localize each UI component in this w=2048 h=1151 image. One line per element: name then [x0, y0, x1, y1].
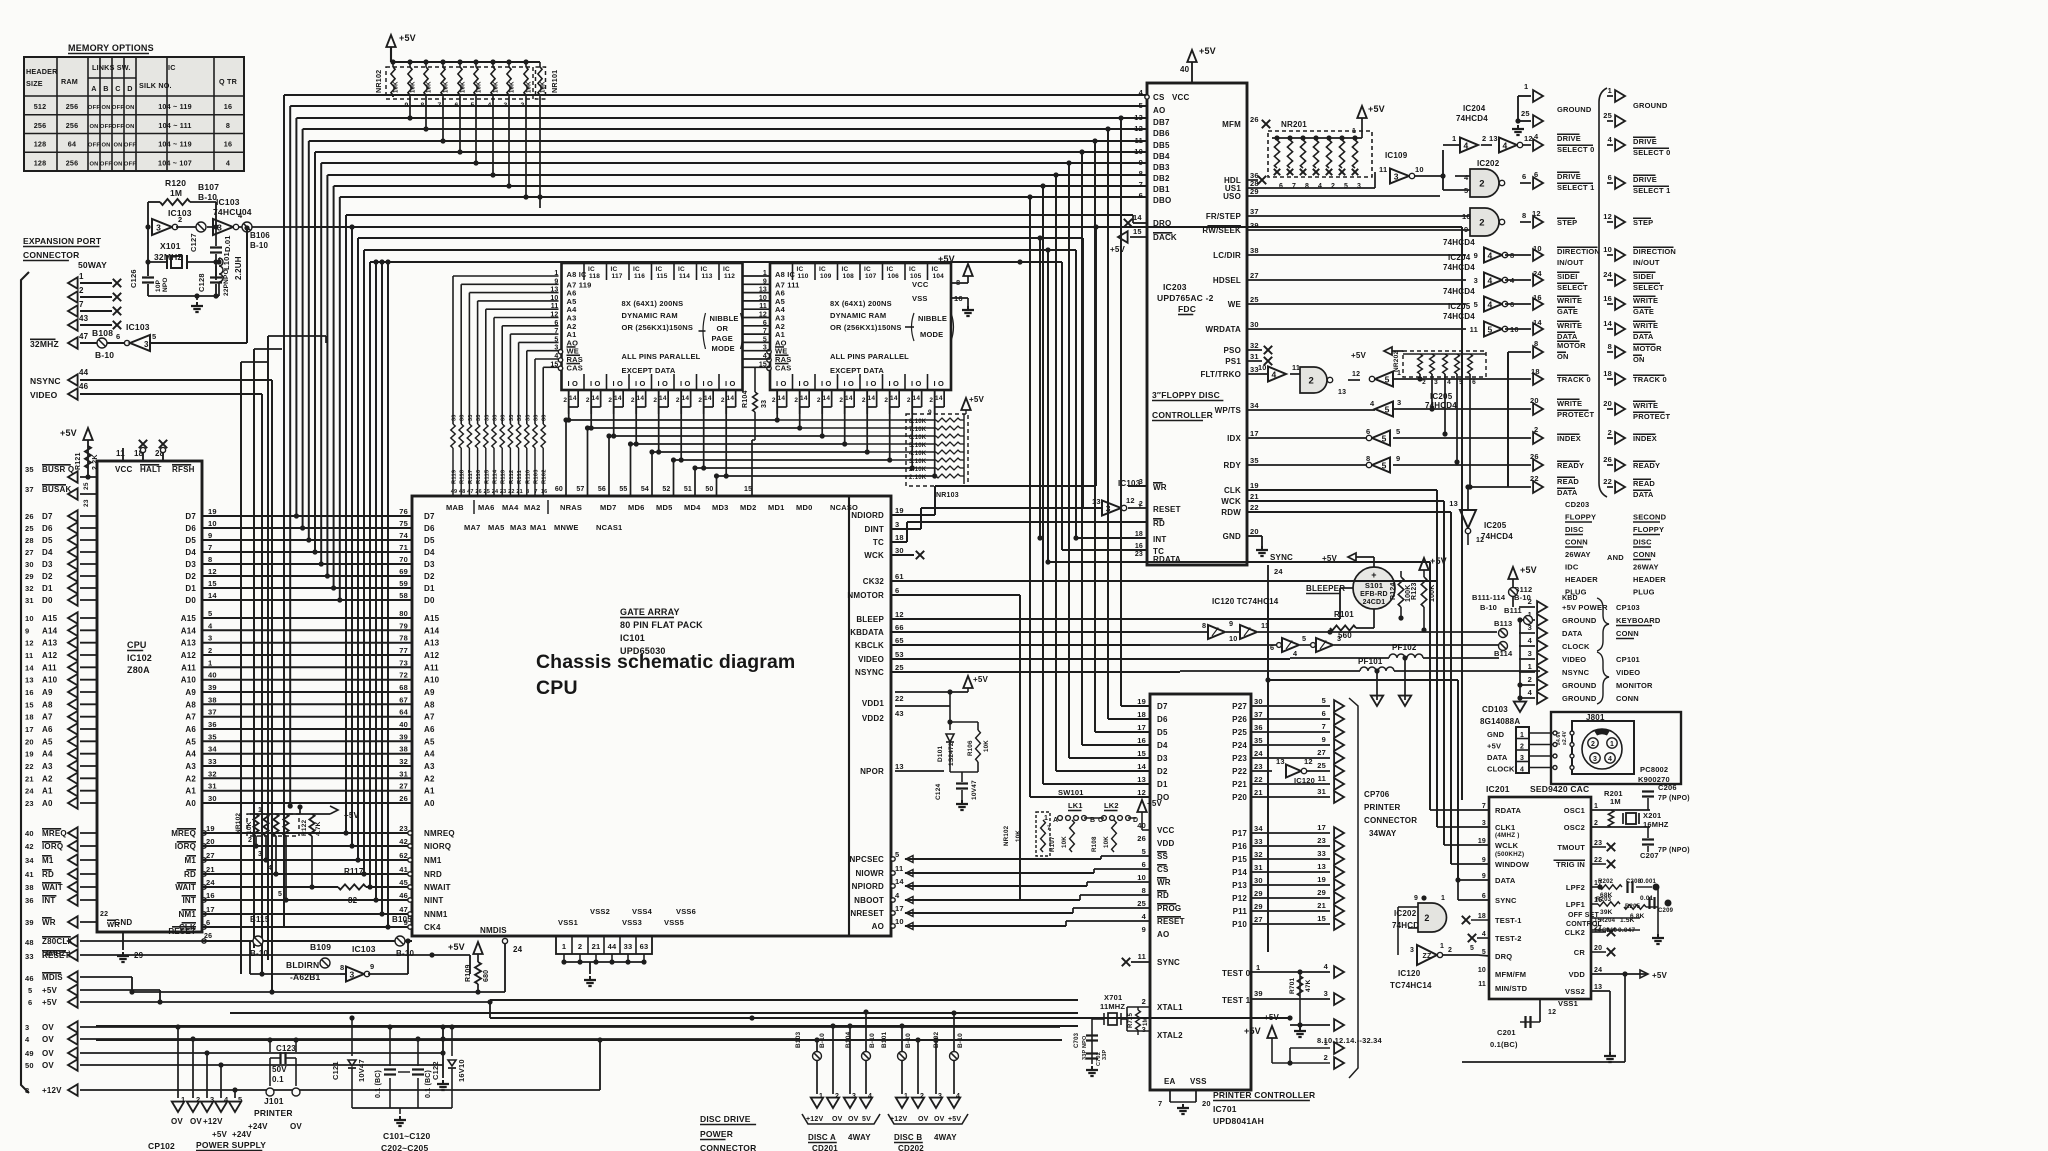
svg-text:+5V: +5V	[448, 942, 465, 952]
svg-text:IC204: IC204	[1448, 253, 1471, 262]
svg-text:D4: D4	[424, 548, 435, 557]
svg-text:WCLK: WCLK	[1495, 841, 1519, 850]
svg-text:PF101: PF101	[1358, 657, 1383, 666]
CPU right-side D pin labels	[185, 507, 412, 605]
svg-text:A4: A4	[424, 750, 435, 759]
svg-text:I O: I O	[776, 379, 787, 388]
svg-text:B113: B113	[1494, 619, 1512, 628]
svg-text:A8: A8	[42, 700, 53, 709]
svg-text:26: 26	[1250, 115, 1259, 124]
svg-text:42: 42	[399, 837, 408, 846]
svg-text:SELECT 0: SELECT 0	[1557, 145, 1594, 154]
svg-text:IC102: IC102	[127, 653, 152, 663]
svg-text:10K: 10K	[427, 81, 433, 93]
svg-text:A13: A13	[181, 639, 197, 648]
IC201 SED9420CAC block	[1478, 784, 1603, 1016]
svg-text:27: 27	[25, 548, 34, 557]
svg-text:MD0: MD0	[796, 503, 812, 512]
svg-text:38: 38	[399, 745, 408, 754]
svg-text:CD103: CD103	[1482, 705, 1508, 714]
svg-text:10K: 10K	[983, 740, 990, 752]
wire GA NPCSEC..A0 to right	[891, 856, 1150, 930]
svg-text:49: 49	[451, 489, 458, 495]
svg-text:NR202: NR202	[1393, 351, 1400, 372]
CP706 printer connector label	[1364, 790, 1417, 838]
svg-text:A2: A2	[424, 774, 435, 783]
svg-text:GROUND: GROUND	[1557, 105, 1592, 114]
svg-text:IC: IC	[701, 266, 708, 273]
svg-text:74HCD4: 74HCD4	[1443, 287, 1475, 296]
svg-text:3: 3	[1410, 947, 1414, 954]
svg-text:16: 16	[206, 891, 215, 900]
svg-text:22: 22	[1603, 477, 1612, 486]
svg-text:VSS3: VSS3	[622, 918, 642, 927]
svg-text:24: 24	[206, 878, 215, 887]
svg-text:OFF: OFF	[100, 124, 112, 130]
resistor R104 33	[742, 367, 768, 440]
svg-text:12: 12	[895, 610, 904, 619]
svg-text:4: 4	[1520, 767, 1524, 774]
svg-text:1M: 1M	[1143, 1017, 1149, 1026]
svg-text:B-10: B-10	[95, 350, 114, 360]
svg-text:+5V: +5V	[969, 395, 985, 404]
svg-text:DACK: DACK	[1153, 233, 1177, 242]
svg-text:2: 2	[1534, 425, 1538, 434]
svg-text:CONN: CONN	[1616, 629, 1639, 638]
svg-text:36: 36	[208, 720, 217, 729]
expansion pin 46 MDIS	[25, 971, 135, 994]
svg-text:IC101: IC101	[620, 633, 645, 643]
inverter IC103 BLDIRN	[250, 941, 412, 982]
NAND IC202 (step)	[1247, 208, 1577, 236]
svg-text:29: 29	[1254, 889, 1263, 898]
svg-text:14: 14	[592, 395, 600, 402]
svg-text:9: 9	[928, 409, 932, 416]
svg-text:112: 112	[724, 273, 735, 280]
svg-text:7: 7	[1158, 1099, 1162, 1108]
svg-text:SED9420 CAC: SED9420 CAC	[1530, 784, 1589, 794]
svg-text:16: 16	[1603, 294, 1612, 303]
svg-text:IDX: IDX	[1227, 434, 1241, 443]
svg-text:XTAL2: XTAL2	[1157, 1031, 1183, 1040]
svg-text:NPIORD: NPIORD	[852, 882, 884, 891]
svg-text:NR102: NR102	[1003, 825, 1010, 846]
svg-text:CONNECTOR: CONNECTOR	[1364, 816, 1417, 825]
svg-text:INDEX: INDEX	[1557, 434, 1581, 443]
svg-text:110: 110	[798, 273, 809, 280]
svg-text:Chassis schematic diagram: Chassis schematic diagram	[536, 651, 795, 673]
svg-text:SYNC: SYNC	[1495, 896, 1517, 905]
svg-text:OV: OV	[171, 1117, 183, 1126]
svg-text:OFF: OFF	[88, 105, 100, 111]
resistor network NR102 pullups (10K) dashed	[235, 804, 310, 902]
svg-text:12: 12	[1126, 496, 1135, 505]
svg-text:9: 9	[1396, 454, 1400, 463]
svg-text:+: +	[1371, 570, 1376, 580]
svg-text:+5V: +5V	[399, 33, 416, 43]
svg-text:DISC A: DISC A	[808, 1133, 836, 1142]
svg-text:1: 1	[904, 1093, 908, 1100]
filter PF101 on nsync	[1180, 657, 1540, 706]
svg-text:SIDEI: SIDEI	[1557, 272, 1578, 281]
svg-text:KBCLK: KBCLK	[855, 641, 884, 650]
svg-text:6: 6	[116, 332, 120, 341]
svg-text:D2: D2	[1157, 767, 1168, 776]
resistor network NR101 (10K)	[536, 62, 560, 99]
svg-text:A14: A14	[424, 626, 440, 635]
svg-text:21: 21	[516, 489, 523, 495]
svg-text:33P NPO: 33P NPO	[1082, 1035, 1088, 1060]
svg-text:IC: IC	[611, 266, 618, 273]
svg-text:READ: READ	[1557, 477, 1579, 486]
svg-text:37: 37	[1254, 710, 1263, 719]
svg-text:41: 41	[25, 870, 34, 879]
svg-text:13: 13	[1594, 984, 1602, 991]
svg-text:14: 14	[935, 395, 943, 402]
svg-text:D2: D2	[424, 572, 435, 581]
svg-text:+5V: +5V	[42, 986, 58, 995]
svg-text:J101: J101	[264, 1096, 284, 1106]
svg-text:512: 512	[34, 102, 47, 111]
svg-text:IC: IC	[723, 266, 730, 273]
svg-text:11: 11	[1478, 981, 1486, 988]
svg-text:C209: C209	[1658, 908, 1674, 914]
crystal X101 32MHZ	[145, 227, 219, 280]
svg-text:IC205: IC205	[1448, 302, 1471, 311]
svg-text:A11: A11	[424, 663, 439, 672]
svg-text:D4: D4	[42, 548, 53, 557]
svg-text:A: A	[91, 84, 96, 93]
svg-text:+5V: +5V	[1520, 565, 1537, 575]
svg-text:GATE: GATE	[1557, 307, 1578, 316]
svg-text:19: 19	[895, 506, 904, 515]
svg-text:SYNC: SYNC	[1157, 958, 1180, 967]
svg-text:SELECT 1: SELECT 1	[1557, 183, 1594, 192]
svg-text:9: 9	[1139, 158, 1143, 167]
svg-text:1: 1	[1324, 1038, 1328, 1047]
svg-text:CPU: CPU	[536, 677, 578, 699]
svg-text:DATA: DATA	[1495, 876, 1516, 885]
svg-text:A6: A6	[42, 725, 53, 734]
svg-text:ON: ON	[1633, 355, 1645, 364]
svg-text:1: 1	[181, 1095, 185, 1104]
svg-text:VDD: VDD	[1157, 839, 1175, 848]
wire RAM data IO bus rows	[563, 390, 937, 479]
svg-text:7: 7	[79, 300, 84, 309]
svg-text:MD5: MD5	[656, 503, 672, 512]
svg-text:+5V: +5V	[1199, 46, 1216, 56]
svg-text:EXCEPT DATA: EXCEPT DATA	[830, 366, 884, 375]
svg-text:DRIVE: DRIVE	[1633, 137, 1657, 146]
svg-text:77: 77	[399, 646, 408, 655]
printer controller bottom pins	[1158, 1090, 1315, 1126]
printer spare connector pins	[1244, 1013, 1383, 1069]
svg-text:29: 29	[134, 951, 144, 960]
svg-text:VDD2: VDD2	[862, 714, 884, 723]
svg-text:SILK NO.: SILK NO.	[139, 81, 172, 90]
svg-text:NPO: NPO	[162, 277, 169, 292]
svg-text:A6: A6	[424, 725, 435, 734]
svg-text:4: 4	[1534, 132, 1539, 141]
svg-text:2: 2	[835, 1093, 839, 1100]
svg-text:6: 6	[1142, 860, 1146, 869]
svg-text:R106: R106	[967, 740, 974, 756]
svg-text:7:10K: 7:10K	[909, 427, 927, 433]
svg-text:IC205: IC205	[1484, 521, 1507, 530]
wire RDATA to IC201	[1048, 562, 1489, 810]
svg-text:RDW: RDW	[1221, 508, 1241, 517]
svg-text:3: 3	[1593, 756, 1597, 763]
svg-text:48: 48	[459, 489, 466, 495]
svg-text:A11: A11	[42, 663, 57, 672]
svg-text:60: 60	[555, 486, 563, 493]
svg-text:A11: A11	[181, 663, 196, 672]
svg-text:23: 23	[399, 824, 408, 833]
svg-text:NR201: NR201	[1281, 120, 1307, 129]
svg-text:MONITOR: MONITOR	[1616, 681, 1653, 690]
svg-text:CAS: CAS	[775, 363, 791, 372]
svg-text:+5V: +5V	[1351, 351, 1367, 360]
svg-text:A8 IC: A8 IC	[567, 270, 588, 279]
svg-text:+12V: +12V	[890, 1116, 907, 1123]
svg-text:6: 6	[1322, 709, 1326, 718]
inverter row KBCLK	[1150, 634, 1499, 658]
svg-text:TEST-1: TEST-1	[1495, 916, 1522, 925]
svg-text:4: 4	[1487, 250, 1492, 260]
svg-text:5:10K: 5:10K	[909, 443, 927, 449]
svg-text:5: 5	[1396, 427, 1400, 436]
svg-text:13: 13	[1317, 862, 1326, 871]
svg-text:3: 3	[208, 634, 212, 643]
svg-text:21: 21	[1254, 788, 1263, 797]
svg-text:DATA: DATA	[1557, 488, 1578, 497]
svg-text:OV: OV	[918, 1116, 929, 1123]
wire 4MHz clock down to IC201	[1461, 227, 1463, 800]
svg-text:32: 32	[208, 769, 217, 778]
svg-text:2.2UH: 2.2UH	[234, 256, 243, 280]
svg-text:I O: I O	[612, 379, 623, 388]
svg-text:1: 1	[1528, 662, 1532, 671]
resistor bundle R119-R105 (33 ohm) and RAM1 address staircase	[451, 276, 559, 496]
svg-text:33: 33	[624, 942, 633, 951]
svg-text:AO: AO	[872, 922, 884, 931]
svg-text:GND: GND	[114, 918, 132, 927]
svg-text:36: 36	[25, 896, 34, 905]
inverter IC103 32MHZ	[124, 225, 249, 351]
svg-text:52: 52	[662, 486, 670, 493]
svg-text:14: 14	[868, 395, 876, 402]
svg-text:B109: B109	[310, 942, 331, 952]
svg-text:16V10: 16V10	[457, 1059, 466, 1082]
svg-text:74HCD4: 74HCD4	[1443, 238, 1475, 247]
svg-text:16: 16	[224, 102, 232, 111]
svg-text:1: 1	[208, 658, 212, 667]
svg-text:11: 11	[25, 651, 33, 660]
svg-text:CLK: CLK	[1224, 486, 1241, 495]
svg-text:R104: R104	[742, 390, 749, 408]
svg-text:IC202: IC202	[1477, 159, 1500, 168]
svg-text:104 ~ 119: 104 ~ 119	[158, 140, 192, 149]
wire GA NDIORD/DINT/TC/WCK to FDC	[891, 486, 1147, 559]
svg-text:10: 10	[1137, 873, 1146, 882]
svg-text:WR: WR	[1153, 483, 1167, 492]
svg-text:1: 1	[1520, 732, 1524, 739]
inverter IC103 osc 1	[145, 208, 199, 235]
svg-text:STEP: STEP	[1633, 218, 1653, 227]
crystal X201 16MHZ + R201	[1591, 783, 1690, 860]
svg-text:A9: A9	[424, 688, 435, 697]
svg-text:2: 2	[79, 286, 84, 295]
svg-text:10: 10	[25, 614, 34, 623]
svg-text:EFB-RD: EFB-RD	[1360, 591, 1388, 598]
svg-text:X201: X201	[1643, 811, 1661, 820]
expansion pins 1 2 7 43	[68, 272, 121, 331]
svg-text:6: 6	[1472, 379, 1476, 386]
svg-text:2: 2	[1142, 997, 1146, 1006]
resistor R122 4.7K	[301, 806, 360, 890]
svg-text:24: 24	[1594, 967, 1602, 974]
svg-text:40: 40	[1180, 65, 1190, 74]
svg-text:UPD65030: UPD65030	[620, 646, 666, 656]
svg-text:WINDOW: WINDOW	[1495, 860, 1530, 869]
svg-text:NCAS1: NCAS1	[596, 523, 622, 532]
svg-text:4: 4	[208, 621, 213, 630]
svg-text:MODE: MODE	[920, 330, 943, 339]
svg-text:40: 40	[208, 671, 217, 680]
svg-text:B108: B108	[92, 328, 113, 338]
svg-text:NSYNC: NSYNC	[855, 668, 884, 677]
svg-text:21: 21	[25, 774, 34, 783]
beads B111-B114	[1472, 565, 1537, 712]
svg-text:ON: ON	[101, 105, 110, 111]
svg-text:A8 IC: A8 IC	[775, 270, 796, 279]
svg-text:4: 4	[1324, 962, 1329, 971]
svg-text:22: 22	[1594, 857, 1602, 864]
svg-text:14: 14	[659, 395, 667, 402]
svg-text:A1: A1	[185, 787, 196, 796]
bead B115 B-10	[250, 915, 270, 958]
svg-text:NIBBLE: NIBBLE	[918, 314, 947, 323]
svg-text:28: 28	[25, 536, 34, 545]
svg-text:2: 2	[1324, 1053, 1328, 1062]
svg-text:15: 15	[1137, 749, 1146, 758]
write protect row	[1247, 392, 1594, 419]
svg-text:3: 3	[25, 1023, 29, 1032]
svg-text:MD4: MD4	[684, 503, 701, 512]
svg-text:49: 49	[25, 1049, 34, 1058]
svg-text:12: 12	[1304, 757, 1313, 766]
svg-text:INDEX: INDEX	[1633, 434, 1657, 443]
svg-text:14: 14	[637, 395, 645, 402]
svg-text:B-10: B-10	[1480, 603, 1497, 612]
svg-text:1: 1	[1452, 134, 1456, 143]
svg-text:R120: R120	[165, 178, 186, 188]
svg-text:MA3: MA3	[510, 523, 526, 532]
svg-text:25: 25	[1521, 109, 1530, 118]
svg-text:3: 3	[1528, 649, 1532, 658]
svg-text:21: 21	[592, 942, 601, 951]
svg-text:DATA: DATA	[1633, 490, 1654, 499]
svg-text:WP/TS: WP/TS	[1215, 406, 1242, 415]
svg-text:B-10: B-10	[396, 949, 414, 958]
svg-text:35: 35	[1254, 736, 1263, 745]
gate array IC101 block	[412, 496, 891, 936]
svg-text:PROTECT: PROTECT	[1557, 410, 1594, 419]
svg-text:AO: AO	[1157, 930, 1169, 939]
svg-text:DB2: DB2	[1153, 174, 1170, 183]
svg-text:115: 115	[657, 273, 668, 280]
svg-text:4: 4	[1487, 299, 1492, 309]
svg-text:3: 3	[895, 520, 899, 529]
connector J801 DIN	[1551, 712, 1681, 784]
svg-text:32MHZ: 32MHZ	[154, 252, 183, 262]
svg-text:A9: A9	[42, 688, 53, 697]
svg-text:4WAY: 4WAY	[848, 1133, 871, 1142]
svg-text:3: 3	[1520, 755, 1524, 762]
LPF RC network R202 R203 R204 R205	[1591, 879, 1674, 944]
svg-text:117: 117	[612, 273, 623, 280]
svg-text:ON: ON	[113, 143, 122, 149]
svg-text:TRACK 0: TRACK 0	[1633, 375, 1667, 384]
svg-text:R112: R112	[509, 470, 515, 484]
svg-text:8X (64X1) 200NS: 8X (64X1) 200NS	[622, 299, 684, 308]
svg-text:19: 19	[208, 507, 217, 516]
svg-text:12: 12	[208, 567, 217, 576]
svg-text:+5V: +5V	[212, 1130, 228, 1139]
svg-text:3: 3	[349, 969, 354, 979]
svg-text:9: 9	[1322, 735, 1326, 744]
svg-text:A15: A15	[424, 614, 440, 623]
svg-text:37: 37	[208, 708, 217, 717]
svg-text:Q TR: Q TR	[219, 77, 238, 86]
svg-text:1: 1	[258, 807, 262, 814]
svg-text:10: 10	[1533, 244, 1542, 253]
svg-text:PC8002: PC8002	[1640, 765, 1668, 774]
svg-text:R111: R111	[517, 469, 523, 484]
svg-text:2:10K: 2:10K	[909, 467, 927, 473]
svg-text:25: 25	[1603, 111, 1612, 120]
svg-text:8: 8	[25, 1086, 29, 1095]
svg-text:5: 5	[1470, 945, 1474, 952]
svg-text:10K: 10K	[411, 81, 417, 93]
bead B107 B-10	[196, 182, 219, 232]
svg-text:38: 38	[25, 883, 34, 892]
svg-text:VIDEO: VIDEO	[858, 655, 884, 664]
svg-text:3: 3	[1106, 503, 1111, 513]
svg-text:S101: S101	[1365, 581, 1383, 590]
svg-text:18: 18	[1478, 913, 1486, 920]
svg-text:22: 22	[25, 762, 34, 771]
wire NAND printer inputs	[1398, 907, 1408, 955]
svg-text:NMOTOR: NMOTOR	[847, 591, 884, 600]
svg-text:17: 17	[895, 904, 904, 913]
svg-text:10: 10	[1603, 245, 1612, 254]
svg-text:OV: OV	[832, 1116, 843, 1123]
svg-text:2: 2	[1520, 744, 1524, 751]
svg-text:PROG: PROG	[1157, 904, 1181, 913]
svg-text:2: 2	[1331, 183, 1335, 190]
svg-text:26WAY: 26WAY	[1633, 563, 1659, 572]
svg-text:MDIS: MDIS	[42, 973, 63, 982]
svg-text:MD7: MD7	[600, 503, 616, 512]
svg-text:11MHZ: 11MHZ	[1100, 1002, 1125, 1011]
wire NSYNC/VIDEO route via bottom	[259, 380, 274, 995]
svg-text:8: 8	[1366, 454, 1370, 463]
svg-text:45: 45	[399, 878, 408, 887]
svg-text:71: 71	[399, 543, 408, 552]
svg-text:14: 14	[1533, 318, 1542, 327]
svg-text:7P (NPO): 7P (NPO)	[1658, 847, 1690, 854]
